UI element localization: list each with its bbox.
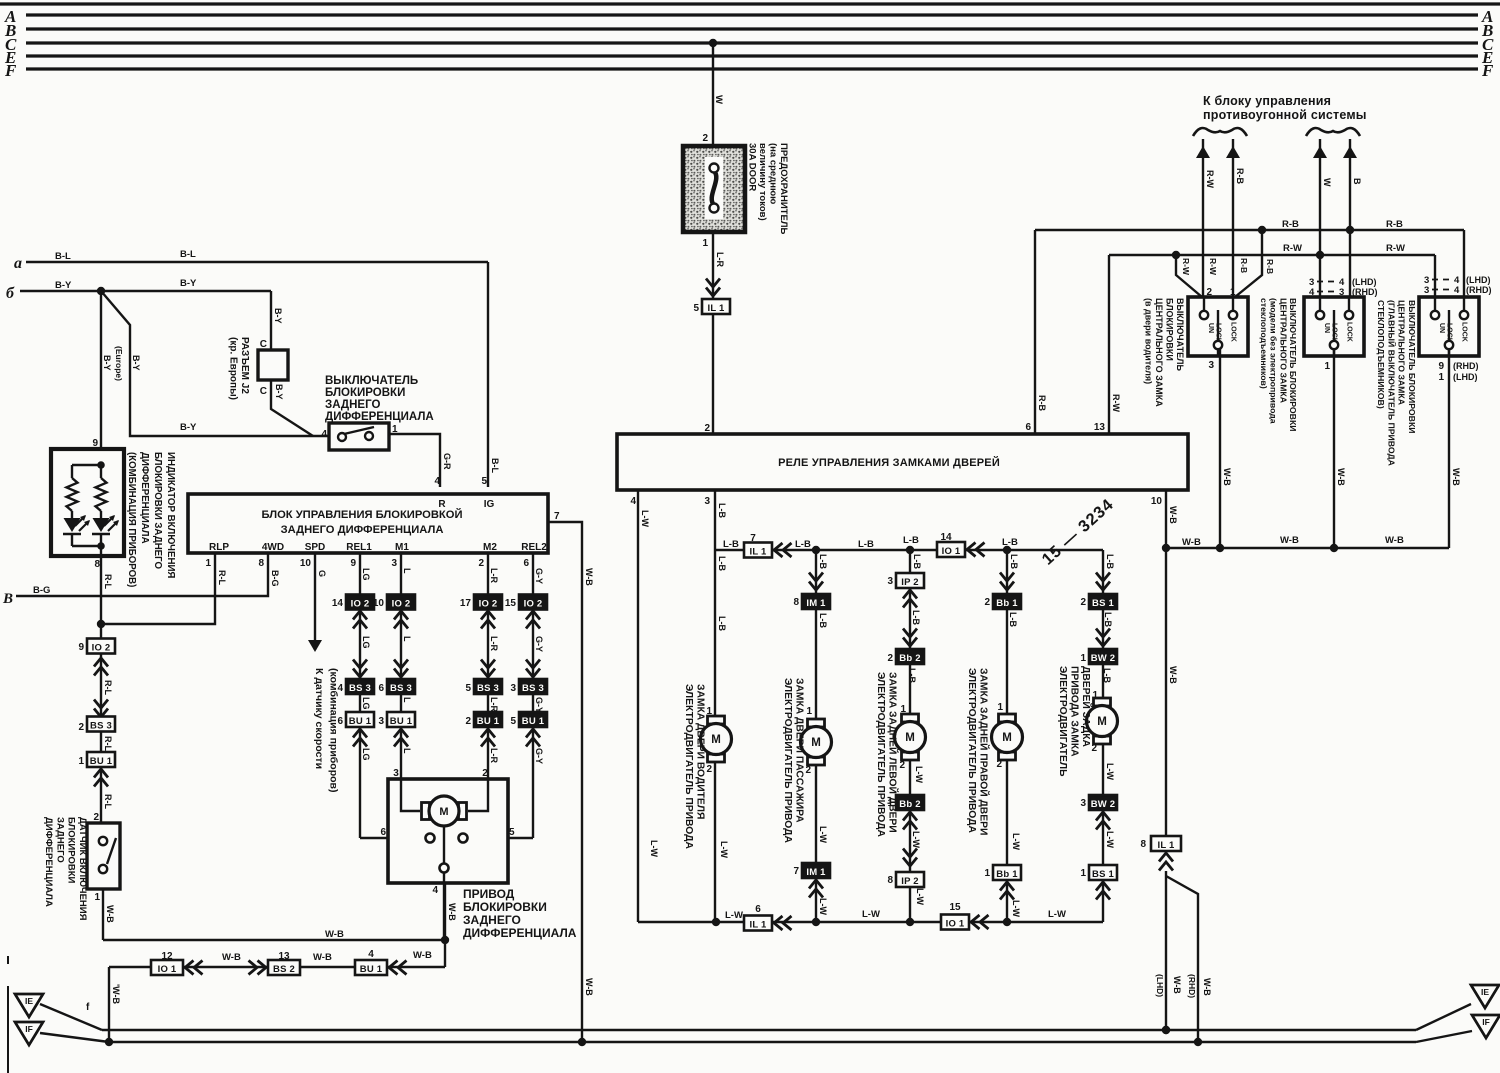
svg-text:IO 2: IO 2 (479, 598, 498, 609)
svg-text:2: 2 (805, 765, 811, 776)
svg-text:4: 4 (434, 476, 440, 487)
svg-text:L-W: L-W (914, 766, 924, 783)
svg-text:6: 6 (380, 827, 386, 838)
svg-text:ПРИВОДА ЗАМКА: ПРИВОДА ЗАМКА (1069, 666, 1080, 757)
svg-text:W-B: W-B (413, 950, 432, 961)
svg-text:IM 1: IM 1 (806, 598, 826, 609)
svg-text:ВЫКЛЮЧАТЕЛЬ: ВЫКЛЮЧАТЕЛЬ (1175, 298, 1185, 371)
svg-text:UN: UN (1438, 323, 1445, 333)
svg-text:ЗАДНЕГО ДИФФЕРЕНЦИАЛА: ЗАДНЕГО ДИФФЕРЕНЦИАЛА (281, 524, 444, 536)
svg-text:4: 4 (432, 885, 438, 896)
svg-text:3: 3 (1424, 285, 1429, 296)
svg-text:L-B: L-B (858, 539, 874, 550)
svg-text:BS 3: BS 3 (390, 683, 412, 694)
svg-text:3: 3 (393, 768, 399, 779)
svg-text:W-B: W-B (1202, 978, 1212, 996)
svg-text:3: 3 (391, 558, 397, 569)
svg-text:противоугонной системы: противоугонной системы (1203, 108, 1367, 122)
svg-text:2: 2 (1091, 743, 1097, 754)
svg-text:4: 4 (321, 429, 327, 440)
svg-text:L-R: L-R (489, 697, 499, 712)
svg-text:B-G: B-G (33, 585, 50, 596)
svg-text:G-R: G-R (442, 453, 452, 470)
svg-text:(ГЛАВНЫЙ ВЫКЛЮЧАТЕЛЬ ПРИВОДА: (ГЛАВНЫЙ ВЫКЛЮЧАТЕЛЬ ПРИВОДА (1386, 300, 1397, 467)
svg-text:1: 1 (94, 892, 100, 903)
svg-text:ЭЛЕКТРОДВИГАТЕЛЬ ПРИВОДА: ЭЛЕКТРОДВИГАТЕЛЬ ПРИВОДА (782, 678, 793, 843)
svg-text:L-W: L-W (818, 898, 828, 915)
svg-text:2: 2 (984, 597, 990, 608)
svg-text:IO 1: IO 1 (942, 546, 961, 557)
svg-text:BS 1: BS 1 (1092, 869, 1114, 880)
svg-text:G-Y: G-Y (534, 697, 544, 713)
svg-text:G: G (317, 570, 327, 577)
svg-text:L-R: L-R (489, 636, 499, 651)
svg-text:L-W: L-W (1048, 909, 1066, 920)
svg-text:3: 3 (510, 683, 516, 694)
svg-text:Bb 2: Bb 2 (899, 799, 920, 810)
svg-text:4: 4 (1309, 287, 1315, 298)
svg-text:ПРИВОД: ПРИВОД (463, 887, 515, 901)
svg-text:BS 1: BS 1 (1092, 598, 1114, 609)
svg-text:B-Y: B-Y (180, 422, 197, 433)
svg-text:ЗАДНЕГО: ЗАДНЕГО (463, 913, 521, 927)
svg-text:IO 1: IO 1 (158, 964, 177, 975)
svg-text:B-G: B-G (270, 570, 280, 587)
svg-text:8: 8 (94, 559, 100, 570)
svg-text:8: 8 (793, 597, 799, 608)
svg-text:M: M (1002, 732, 1012, 744)
svg-text:L-B: L-B (912, 554, 922, 569)
svg-text:R-L: R-L (217, 570, 227, 585)
svg-text:2: 2 (702, 133, 708, 144)
svg-text:Bb 1: Bb 1 (996, 869, 1018, 880)
svg-text:R-B: R-B (1235, 168, 1245, 184)
svg-text:17: 17 (460, 598, 472, 609)
svg-text:L-B: L-B (723, 539, 739, 550)
svg-text:R-W: R-W (1283, 243, 1302, 254)
svg-text:2: 2 (482, 768, 488, 779)
svg-text:2: 2 (78, 722, 84, 733)
svg-text:ВЫКЛЮЧАТЕЛЬ БЛОКИРОВКИ: ВЫКЛЮЧАТЕЛЬ БЛОКИРОВКИ (1288, 298, 1298, 432)
svg-text:B-Y: B-Y (102, 355, 112, 371)
svg-text:W-B: W-B (1336, 468, 1346, 486)
svg-text:R-L: R-L (103, 736, 113, 751)
svg-text:IO 2: IO 2 (92, 642, 111, 653)
svg-text:3: 3 (1339, 287, 1344, 298)
svg-text:BU 1: BU 1 (522, 716, 545, 727)
svg-text:BS 3: BS 3 (522, 683, 544, 694)
svg-text:LOCK: LOCK (1346, 322, 1353, 342)
svg-text:W-B: W-B (222, 952, 241, 963)
svg-text:IL 1: IL 1 (750, 919, 768, 930)
svg-text:G-Y: G-Y (534, 636, 544, 652)
svg-text:IF: IF (1482, 1017, 1490, 1027)
svg-text:LG: LG (361, 748, 371, 761)
svg-text:F: F (1481, 61, 1494, 80)
svg-text:L: L (402, 748, 412, 754)
svg-text:L-B: L-B (1009, 554, 1019, 569)
svg-text:UN: UN (1323, 323, 1330, 333)
svg-text:L-R: L-R (715, 252, 725, 267)
svg-text:6: 6 (337, 716, 343, 727)
svg-text:L-B: L-B (1002, 537, 1018, 548)
svg-text:ЦЕНТРАЛЬНОГО ЗАМКА: ЦЕНТРАЛЬНОГО ЗАМКА (1154, 298, 1164, 407)
svg-text:7: 7 (793, 866, 799, 877)
svg-text:R-L: R-L (103, 794, 113, 809)
svg-text:1: 1 (984, 868, 990, 879)
svg-text:IG: IG (484, 499, 495, 510)
svg-text:(LHD): (LHD) (1352, 277, 1377, 287)
svg-text:Bb 1: Bb 1 (996, 598, 1018, 609)
svg-text:7: 7 (554, 511, 560, 522)
svg-text:величину токов): величину токов) (757, 143, 768, 221)
svg-text:10: 10 (300, 558, 312, 569)
svg-text:RLP: RLP (209, 542, 229, 553)
svg-text:ДИФФЕРЕНЦИАЛА: ДИФФЕРЕНЦИАЛА (463, 926, 577, 940)
svg-text:РАЗЪЕМ J2: РАЗЪЕМ J2 (239, 337, 250, 394)
svg-text:R-B: R-B (1282, 219, 1299, 230)
svg-text:LOCK: LOCK (1331, 323, 1338, 343)
svg-text:W-B: W-B (1451, 468, 1461, 486)
svg-text:8: 8 (258, 558, 264, 569)
svg-text:(в двери водителя): (в двери водителя) (1144, 298, 1154, 384)
svg-text:BW 2: BW 2 (1091, 799, 1116, 810)
svg-text:4: 4 (368, 949, 374, 960)
svg-text:L: L (402, 636, 412, 642)
svg-text:10: 10 (1151, 496, 1163, 507)
svg-text:LG: LG (361, 697, 371, 710)
svg-text:L: L (402, 697, 412, 703)
svg-text:IP 2: IP 2 (901, 577, 919, 588)
svg-text:5: 5 (693, 303, 699, 314)
svg-text:ЭЛЕКТРОДВИГАТЕЛЬ ПРИВОДА: ЭЛЕКТРОДВИГАТЕЛЬ ПРИВОДА (875, 672, 886, 837)
svg-text:К датчику скорости: К датчику скорости (313, 668, 325, 769)
svg-text:B-L: B-L (55, 251, 71, 262)
svg-text:REL2: REL2 (521, 542, 547, 553)
svg-text:R-L: R-L (103, 574, 113, 589)
svg-text:6: 6 (1025, 422, 1031, 433)
svg-text:(LHD): (LHD) (1155, 974, 1165, 997)
svg-text:ВЫКЛЮЧАТЕЛЬ БЛОКИРОВКИ: ВЫКЛЮЧАТЕЛЬ БЛОКИРОВКИ (1407, 300, 1417, 434)
svg-text:(RHD): (RHD) (1187, 974, 1197, 998)
svg-text:9: 9 (1438, 361, 1444, 372)
svg-text:ЭЛЕКТРОДВИГАТЕЛЬ ПРИВОДА: ЭЛЕКТРОДВИГАТЕЛЬ ПРИВОДА (683, 684, 694, 849)
svg-text:G-Y: G-Y (534, 748, 544, 764)
svg-text:L-W: L-W (719, 841, 729, 858)
svg-text:B-Y: B-Y (131, 355, 141, 371)
svg-text:B-Y: B-Y (274, 384, 284, 400)
svg-text:W-B: W-B (1168, 666, 1178, 684)
svg-text:(RHD): (RHD) (1352, 287, 1378, 297)
svg-text:W-B: W-B (447, 903, 457, 921)
svg-text:(модели без электропривода: (модели без электропривода (1269, 298, 1279, 424)
svg-text:(RHD): (RHD) (1466, 285, 1492, 295)
svg-text:IE: IE (25, 996, 33, 1006)
svg-text:5: 5 (465, 683, 471, 694)
svg-text:ЗАМКА ЗАДНЕЙ ЛЕВОЙ ДВЕРИ: ЗАМКА ЗАДНЕЙ ЛЕВОЙ ДВЕРИ (887, 672, 900, 833)
svg-text:L-B: L-B (1102, 668, 1112, 683)
svg-text:1: 1 (1324, 361, 1330, 372)
svg-text:14: 14 (332, 598, 344, 609)
svg-text:6: 6 (755, 904, 761, 915)
svg-text:M2: M2 (483, 542, 497, 553)
svg-text:W-B: W-B (313, 952, 332, 963)
svg-text:LOCK: LOCK (1215, 323, 1222, 343)
svg-text:1: 1 (702, 238, 708, 249)
svg-text:W-B: W-B (1385, 535, 1404, 546)
svg-text:L-W: L-W (818, 826, 828, 843)
svg-text:L-B: L-B (911, 610, 921, 625)
svg-text:а: а (14, 255, 22, 272)
svg-text:6: 6 (523, 558, 529, 569)
svg-text:BU 1: BU 1 (360, 964, 383, 975)
svg-text:M: M (1097, 716, 1107, 728)
svg-text:ПРЕДОХРАНИТЕЛЬ: ПРЕДОХРАНИТЕЛЬ (778, 143, 789, 234)
svg-text:L-B: L-B (818, 613, 828, 628)
svg-text:LOCK: LOCK (1230, 322, 1237, 342)
svg-text:(Europe): (Europe) (114, 346, 124, 381)
svg-text:B-Y: B-Y (180, 278, 197, 289)
svg-text:(LHD): (LHD) (1466, 275, 1491, 285)
svg-text:R-B: R-B (1265, 259, 1275, 274)
svg-text:БЛОКИРОВКИ ЗАДНЕГО: БЛОКИРОВКИ ЗАДНЕГО (152, 452, 163, 570)
svg-text:R-W: R-W (1386, 243, 1405, 254)
svg-text:6: 6 (378, 683, 384, 694)
svg-text:W: W (713, 95, 724, 104)
svg-text:L-B: L-B (717, 616, 727, 631)
svg-text:15: 15 (949, 902, 961, 913)
svg-text:10: 10 (373, 598, 385, 609)
svg-text:БЛОКИРОВКИ: БЛОКИРОВКИ (66, 817, 77, 884)
svg-text:BU 1: BU 1 (90, 756, 113, 767)
svg-text:30A DOOR: 30A DOOR (747, 143, 758, 191)
svg-text:M: M (439, 806, 448, 818)
svg-text:БЛОКИРОВКИ: БЛОКИРОВКИ (325, 387, 405, 399)
svg-text:1: 1 (78, 756, 84, 767)
svg-text:ЭЛЕКТРОДВИГАТЕЛЬ: ЭЛЕКТРОДВИГАТЕЛЬ (1057, 666, 1068, 777)
svg-text:L-W: L-W (1105, 763, 1115, 780)
svg-text:К блоку управления: К блоку управления (1203, 94, 1331, 108)
svg-text:4: 4 (337, 683, 343, 694)
svg-text:4: 4 (1454, 285, 1460, 296)
svg-text:(КОМБИНАЦИЯ ПРИБОРОВ): (КОМБИНАЦИЯ ПРИБОРОВ) (126, 452, 137, 587)
svg-text:L-B: L-B (903, 535, 919, 546)
svg-text:L-R: L-R (489, 748, 499, 763)
svg-text:REL1: REL1 (346, 542, 372, 553)
svg-text:R: R (438, 499, 446, 510)
svg-text:G-Y: G-Y (534, 568, 544, 584)
svg-text:W-B: W-B (325, 929, 344, 940)
svg-text:1: 1 (1080, 653, 1086, 664)
svg-text:B-Y: B-Y (273, 308, 283, 324)
svg-text:IL 1: IL 1 (708, 303, 726, 314)
svg-text:IO 2: IO 2 (524, 598, 543, 609)
svg-text:F: F (4, 61, 17, 80)
svg-text:1: 1 (205, 558, 211, 569)
svg-text:8: 8 (1140, 839, 1146, 850)
svg-text:BW 2: BW 2 (1091, 653, 1116, 664)
svg-text:ДИФФЕРЕНЦИАЛА: ДИФФЕРЕНЦИАЛА (139, 452, 150, 544)
svg-text:2: 2 (899, 760, 905, 771)
svg-text:R-L: R-L (103, 680, 113, 695)
svg-text:ЭЛЕКТРОДВИГАТЕЛЬ ПРИВОДА: ЭЛЕКТРОДВИГАТЕЛЬ ПРИВОДА (966, 668, 977, 833)
svg-text:W-B: W-B (105, 905, 115, 923)
svg-text:4: 4 (630, 496, 636, 507)
svg-text:M1: M1 (395, 542, 409, 553)
svg-text:Bb 2: Bb 2 (899, 653, 920, 664)
svg-text:IO 2: IO 2 (351, 598, 370, 609)
svg-text:9: 9 (350, 558, 356, 569)
svg-text:(RHD): (RHD) (1453, 361, 1479, 371)
svg-text:BU 1: BU 1 (349, 716, 372, 727)
svg-text:R-B: R-B (1239, 258, 1249, 273)
svg-text:IM 1: IM 1 (806, 867, 826, 878)
svg-text:ДИФФЕРЕНЦИАЛА: ДИФФЕРЕНЦИАЛА (43, 817, 54, 907)
svg-text:B-L: B-L (490, 458, 500, 473)
svg-text:R-W: R-W (1208, 258, 1218, 276)
svg-text:2: 2 (887, 653, 893, 664)
svg-text:f: f (86, 1002, 90, 1013)
svg-text:IE: IE (1481, 987, 1489, 997)
svg-text:R-W: R-W (1111, 394, 1121, 412)
svg-text:2: 2 (1080, 597, 1086, 608)
svg-text:W-B: W-B (584, 568, 594, 586)
svg-text:ЗАДНЕГО: ЗАДНЕГО (325, 399, 380, 411)
svg-text:L-B: L-B (795, 539, 811, 550)
svg-text:L-W: L-W (1105, 831, 1115, 848)
svg-text:ДАТЧИК ВКЛЮЧЕНИЯ: ДАТЧИК ВКЛЮЧЕНИЯ (77, 817, 88, 921)
svg-text:L-W: L-W (862, 909, 880, 920)
svg-text:L-W: L-W (915, 888, 925, 905)
svg-text:L-W: L-W (725, 910, 743, 921)
svg-text:ЗАДНЕГО: ЗАДНЕГО (54, 817, 65, 863)
svg-text:стеклоподъемников): стеклоподъемников) (1259, 298, 1269, 389)
svg-text:б: б (6, 285, 15, 302)
svg-text:BS 3: BS 3 (90, 720, 112, 731)
svg-text:13: 13 (1094, 422, 1106, 433)
svg-text:BU 1: BU 1 (390, 716, 413, 727)
svg-text:M: M (811, 737, 821, 749)
svg-text:M: M (905, 732, 915, 744)
svg-text:ЗАМКА ДВЕРИ ПАССАЖИРА: ЗАМКА ДВЕРИ ПАССАЖИРА (794, 678, 805, 823)
svg-text:W-B: W-B (1182, 537, 1201, 548)
svg-text:IL 1: IL 1 (1158, 840, 1176, 851)
svg-text:BU 1: BU 1 (477, 716, 500, 727)
svg-text:B-Y: B-Y (55, 280, 72, 291)
svg-text:BS 2: BS 2 (273, 964, 295, 975)
svg-text:БЛОКИРОВКИ: БЛОКИРОВКИ (1165, 298, 1175, 361)
svg-text:C: C (260, 386, 267, 397)
svg-text:L-W: L-W (649, 840, 659, 857)
svg-text:R-B: R-B (1386, 219, 1403, 230)
svg-text:LG: LG (361, 636, 371, 649)
svg-text:БЛОКИРОВКИ: БЛОКИРОВКИ (463, 900, 547, 914)
svg-text:SPD: SPD (305, 542, 326, 553)
svg-text:БЛОК УПРАВЛЕНИЯ БЛОКИРОВКОЙ: БЛОК УПРАВЛЕНИЯ БЛОКИРОВКОЙ (261, 508, 462, 521)
svg-text:L-B: L-B (818, 554, 828, 569)
svg-text:3: 3 (1208, 360, 1214, 371)
svg-text:L-W: L-W (911, 831, 921, 848)
svg-text:5: 5 (510, 716, 516, 727)
svg-text:L-R: L-R (489, 568, 499, 583)
svg-text:W-B: W-B (1172, 976, 1182, 994)
svg-text:LOCK: LOCK (1461, 322, 1468, 342)
svg-text:LG: LG (361, 568, 371, 581)
svg-text:BS 3: BS 3 (477, 683, 499, 694)
svg-text:B: B (2, 591, 13, 607)
svg-text:РЕЛЕ УПРАВЛЕНИЯ ЗАМКАМИ ДВЕРЕЙ: РЕЛЕ УПРАВЛЕНИЯ ЗАМКАМИ ДВЕРЕЙ (778, 456, 1000, 469)
svg-text:3: 3 (704, 496, 710, 507)
svg-text:ЦЕНТРАЛЬНОГО ЗАМКА: ЦЕНТРАЛЬНОГО ЗАМКА (1278, 298, 1288, 404)
svg-text:2: 2 (706, 764, 712, 775)
svg-text:IP 2: IP 2 (901, 876, 919, 887)
svg-text:L-B: L-B (1008, 612, 1018, 627)
svg-text:L-B: L-B (1105, 554, 1115, 569)
svg-text:(LHD): (LHD) (1453, 372, 1478, 382)
svg-text:L-B: L-B (717, 556, 727, 571)
svg-text:L-W: L-W (1011, 833, 1021, 850)
svg-text:1: 1 (806, 706, 812, 717)
svg-text:L: L (402, 568, 412, 574)
svg-text:1: 1 (1438, 372, 1444, 383)
svg-text:4WD: 4WD (262, 542, 284, 553)
svg-text:1: 1 (1080, 868, 1086, 879)
svg-text:5: 5 (481, 476, 487, 487)
svg-text:BS 3: BS 3 (349, 683, 371, 694)
svg-text:R-B: R-B (1037, 395, 1047, 411)
svg-text:IO 1: IO 1 (946, 918, 965, 929)
svg-text:3: 3 (378, 716, 384, 727)
svg-text:IL 1: IL 1 (750, 546, 768, 557)
svg-text:W: W (1322, 178, 1332, 187)
svg-text:UN: UN (1207, 323, 1214, 333)
svg-text:8: 8 (887, 875, 893, 886)
svg-text:ДИФФЕРЕНЦИАЛА: ДИФФЕРЕНЦИАЛА (325, 411, 434, 423)
svg-text:M: M (711, 734, 721, 746)
svg-text:L-W: L-W (640, 510, 650, 527)
svg-text:W-B: W-B (584, 978, 594, 996)
svg-text:IF: IF (25, 1024, 33, 1034)
svg-text:СТЕКЛОПОДЪЕМНИКОВ): СТЕКЛОПОДЪЕМНИКОВ) (1376, 300, 1386, 409)
svg-text:ДВЕРЕЙ ЗАДКА: ДВЕРЕЙ ЗАДКА (1080, 666, 1093, 748)
svg-text:2: 2 (465, 716, 471, 727)
svg-text:W-B: W-B (1168, 506, 1178, 524)
svg-text:ЗАМКА ДВЕРИ ВОДИТЕЛЯ: ЗАМКА ДВЕРИ ВОДИТЕЛЯ (695, 684, 706, 819)
svg-text:L-B: L-B (907, 668, 917, 683)
svg-text:L-B: L-B (1103, 612, 1113, 627)
svg-text:(кр. Европы): (кр. Европы) (228, 337, 239, 400)
svg-text:ИНДИКАТОР ВКЛЮЧЕНИЯ: ИНДИКАТОР ВКЛЮЧЕНИЯ (165, 452, 176, 578)
svg-text:IO 2: IO 2 (392, 598, 411, 609)
svg-text:ВЫКЛЮЧАТЕЛЬ: ВЫКЛЮЧАТЕЛЬ (325, 375, 418, 387)
svg-text:1: 1 (997, 702, 1003, 713)
svg-text:B: B (1352, 178, 1362, 185)
svg-text:3: 3 (1080, 798, 1086, 809)
svg-text:L-W: L-W (1011, 900, 1021, 917)
svg-text:ЦЕНТРАЛЬНОГО ЗАМКА: ЦЕНТРАЛЬНОГО ЗАМКА (1397, 300, 1407, 406)
svg-text:(на среднюю: (на среднюю (768, 143, 779, 204)
svg-text:W-B: W-B (1222, 468, 1232, 486)
svg-text:'W-B: 'W-B (111, 984, 121, 1004)
svg-text:W-B: W-B (1280, 535, 1299, 546)
svg-text:5: 5 (509, 827, 515, 838)
svg-text:L-B: L-B (717, 503, 727, 518)
svg-text:2: 2 (478, 558, 484, 569)
svg-text:B-L: B-L (180, 249, 196, 260)
svg-text:R-W: R-W (1181, 258, 1191, 276)
svg-text:LOCK: LOCK (1446, 323, 1453, 343)
svg-text:15: 15 (505, 598, 517, 609)
